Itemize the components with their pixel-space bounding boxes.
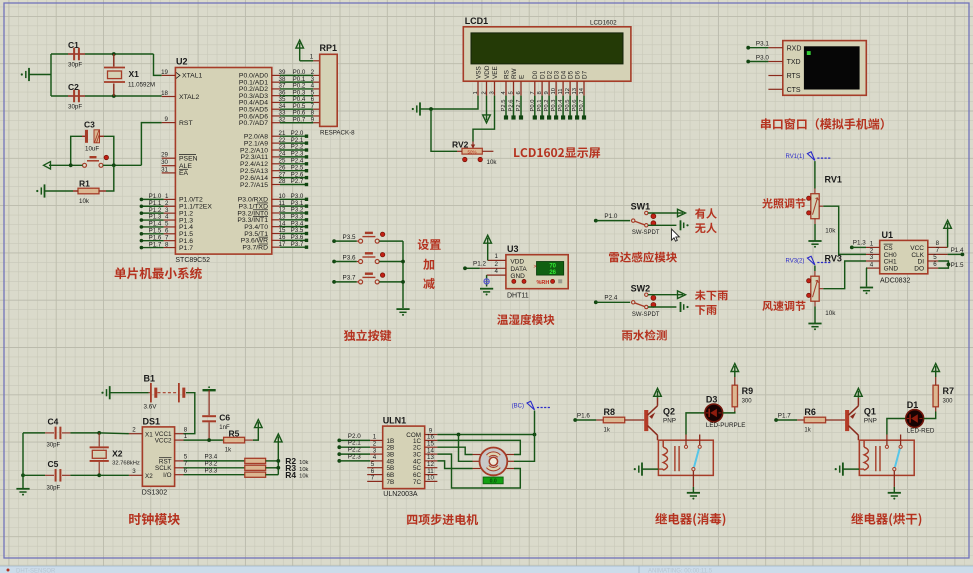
wire R1 to reset node xyxy=(99,190,106,192)
svg-text:P2.5: P2.5 xyxy=(501,100,507,112)
potentiometer RV3 10k xyxy=(811,276,819,301)
svg-text:1: 1 xyxy=(870,241,874,248)
pin RST xyxy=(162,122,176,124)
svg-text:P0.7: P0.7 xyxy=(293,116,306,123)
svg-text:%RH: %RH xyxy=(537,280,550,286)
wire throw2 / ground xyxy=(648,306,676,308)
svg-text:R7: R7 xyxy=(943,386,955,396)
power terminal (R5) xyxy=(255,420,263,428)
svg-text:E: E xyxy=(518,75,525,79)
pin P1.1 xyxy=(164,205,176,207)
svg-text:R6: R6 xyxy=(804,407,816,417)
pin P1.7 xyxy=(164,247,176,249)
svg-text:X2: X2 xyxy=(145,473,153,480)
ULN right pin 13 xyxy=(425,460,438,462)
ground (RV1) xyxy=(808,240,821,242)
svg-text:10uF: 10uF xyxy=(85,146,99,153)
LCD VSS to ground xyxy=(431,96,478,109)
svg-text:RV1(1): RV1(1) xyxy=(785,154,804,160)
mouse cursor xyxy=(672,229,680,241)
svg-text:1: 1 xyxy=(184,433,188,440)
svg-text:R9: R9 xyxy=(742,386,754,396)
RV1 wiper wire to CH0 xyxy=(819,205,823,207)
svg-text:DHT-SENSOR: DHT-SENSOR xyxy=(16,569,56,573)
svg-text:11: 11 xyxy=(558,88,564,94)
svg-text:D1: D1 xyxy=(907,400,919,410)
svg-text:VDD: VDD xyxy=(510,259,524,266)
svg-text:R1: R1 xyxy=(79,179,90,189)
label: 减 xyxy=(423,278,434,289)
svg-text:30pF: 30pF xyxy=(68,62,82,69)
ground (battery) xyxy=(109,386,111,399)
svg-text:RW: RW xyxy=(511,68,518,79)
svg-text:VDD: VDD xyxy=(484,65,491,79)
pin P1.3 xyxy=(164,219,176,221)
relay coil+contact xyxy=(658,440,713,475)
svg-text:VEE: VEE xyxy=(492,66,499,79)
svg-text:R4: R4 xyxy=(285,470,296,480)
svg-text:XTAL2: XTAL2 xyxy=(179,94,199,101)
svg-text:10k: 10k xyxy=(825,228,836,235)
push button P3.5 xyxy=(332,239,336,243)
svg-text:U1: U1 xyxy=(882,230,894,240)
svg-text:7C: 7C xyxy=(413,479,422,486)
svg-text:50%: 50% xyxy=(467,149,476,154)
svg-text:PNP: PNP xyxy=(864,418,877,425)
reset terminal arrow xyxy=(44,162,51,169)
svg-text:X1: X1 xyxy=(129,69,140,79)
svg-text:14: 14 xyxy=(579,87,585,94)
svg-text:LCD1: LCD1 xyxy=(465,16,489,26)
svg-text:8: 8 xyxy=(165,241,169,248)
ground (R1) xyxy=(44,184,46,197)
svg-text:30pF: 30pF xyxy=(47,485,61,491)
status bar xyxy=(0,566,973,573)
ULN pin 6 stub xyxy=(367,474,383,476)
wire COM to motor right xyxy=(514,435,535,462)
transistor Q2 PNP xyxy=(644,410,648,431)
svg-text:8: 8 xyxy=(936,240,940,247)
DHT11 GND pin xyxy=(487,274,506,276)
LCD D3 wire xyxy=(555,96,557,118)
resistor R8 1k xyxy=(596,419,603,421)
LED D1 LED-RED xyxy=(887,419,906,435)
svg-text:3: 3 xyxy=(132,468,136,475)
serial window (virtual terminal) xyxy=(783,41,867,96)
svg-text:P1.6: P1.6 xyxy=(577,413,590,420)
ADC DO pin 6 xyxy=(928,267,938,269)
label: 加 xyxy=(423,259,434,270)
emitter to power xyxy=(657,398,659,406)
svg-text:P1.7: P1.7 xyxy=(179,245,193,252)
LCD RS wire xyxy=(505,96,507,118)
capacitor C2 xyxy=(51,95,68,97)
ground (relay coil) xyxy=(842,463,844,476)
wire to XTAL1 xyxy=(154,54,162,75)
ADC pin 4 xyxy=(866,267,880,269)
svg-text:RV3: RV3 xyxy=(825,254,842,264)
wire C4-C5 left bus xyxy=(22,433,24,489)
node P1.3 xyxy=(850,246,854,250)
svg-text:C2: C2 xyxy=(68,82,79,92)
LCD E wire xyxy=(520,96,522,118)
svg-text:P3.1: P3.1 xyxy=(756,41,769,48)
resistor R9 300 xyxy=(723,412,735,413)
svg-text:3: 3 xyxy=(870,254,874,261)
DHT11 DATA pin / node P1.2 xyxy=(480,267,506,269)
wire 1C to motor xyxy=(437,440,520,454)
push button P3.6 xyxy=(332,260,336,264)
RV2 right stub xyxy=(482,150,493,152)
chip DS1 DS1302 xyxy=(142,427,174,486)
svg-text:C3: C3 xyxy=(84,120,95,130)
svg-text:LED-PURPLE: LED-PURPLE xyxy=(706,422,746,429)
DHT11 LCD panel xyxy=(537,262,564,276)
node P1.5 wire xyxy=(938,261,948,268)
svg-text:10k: 10k xyxy=(299,460,308,466)
svg-text:4: 4 xyxy=(494,268,498,275)
svg-text:RV2: RV2 xyxy=(452,140,469,150)
ADC pin 2 xyxy=(866,253,880,255)
wire probe to RV1 xyxy=(814,161,816,188)
svg-text:26: 26 xyxy=(549,270,556,276)
wire throw2 / ground xyxy=(648,224,676,226)
svg-text:C6: C6 xyxy=(219,413,230,423)
svg-text:D2: D2 xyxy=(546,70,553,79)
svg-text:5: 5 xyxy=(509,91,515,94)
label: DHT11 title xyxy=(497,314,508,325)
LCD RW wire xyxy=(513,96,515,118)
svg-text:D3: D3 xyxy=(706,395,718,405)
crystal X1 xyxy=(112,52,116,56)
svg-text:DI: DI xyxy=(918,258,925,265)
pin PSEN xyxy=(162,157,176,159)
ULN right pin 11 xyxy=(425,474,438,476)
svg-text:300: 300 xyxy=(943,399,954,405)
svg-text:P1.3: P1.3 xyxy=(853,240,866,247)
RV3 bottom to ground xyxy=(814,301,816,306)
LCD VEE to RV2 wiper xyxy=(473,96,495,142)
svg-text:R8: R8 xyxy=(604,407,616,417)
power terminal (ADC) xyxy=(944,220,952,228)
label: wind adjust xyxy=(762,301,773,311)
ground (crystal) xyxy=(28,68,30,81)
svg-text:4: 4 xyxy=(870,261,874,268)
LCD1 LCD1602 display xyxy=(463,27,631,81)
svg-text:DATA: DATA xyxy=(510,266,527,273)
svg-text:0.0: 0.0 xyxy=(490,479,497,485)
svg-text:10k: 10k xyxy=(299,467,308,473)
svg-text:1: 1 xyxy=(494,253,498,260)
svg-text:RP1: RP1 xyxy=(320,43,338,53)
svg-text:13: 13 xyxy=(572,88,578,94)
svg-text:GND: GND xyxy=(510,273,525,280)
svg-text:P0.3: P0.3 xyxy=(551,100,557,112)
svg-text:U2: U2 xyxy=(176,57,188,67)
pin XTAL2 xyxy=(162,96,176,98)
node P1.6 xyxy=(573,418,577,422)
power terminal (RP1) xyxy=(296,40,304,48)
svg-text:ULN1: ULN1 xyxy=(383,416,407,426)
svg-text:RV1: RV1 xyxy=(825,175,842,185)
wire 2C to motor xyxy=(437,447,472,454)
LCD D4 wire xyxy=(562,96,564,118)
LCD D5 wire xyxy=(569,96,571,118)
relay contacts xyxy=(685,435,687,446)
DS1302 VCC1 pin 8 xyxy=(175,433,184,435)
capacitor C6 1nF xyxy=(208,390,210,415)
svg-text:7: 7 xyxy=(371,475,375,482)
svg-text:P0.7/AD7: P0.7/AD7 xyxy=(239,120,268,127)
ULN right pin 10 xyxy=(425,480,438,482)
svg-text:30pF: 30pF xyxy=(47,443,61,449)
svg-text:X2: X2 xyxy=(112,449,123,459)
svg-text:PNP: PNP xyxy=(663,418,676,425)
wire probe to RV3 xyxy=(814,266,816,272)
RV1 bottom to ground xyxy=(814,219,816,224)
DS1302 RST pin 5 / resistor R2 10k xyxy=(175,460,184,462)
svg-text:D1: D1 xyxy=(539,70,546,79)
svg-text:70: 70 xyxy=(549,263,556,269)
ADC pin 3 xyxy=(866,260,880,262)
ADC CLK pin 7 / node P1.4 xyxy=(928,253,948,255)
ADC VCC pin 8 xyxy=(928,246,948,248)
svg-text:9: 9 xyxy=(311,116,315,123)
svg-text:(BC): (BC) xyxy=(512,403,524,409)
svg-text:P2.4: P2.4 xyxy=(604,295,617,302)
ULN right pin 12 xyxy=(425,467,438,469)
serial pin CTS xyxy=(768,88,782,90)
wire xyxy=(50,54,52,96)
LCD D7 wire xyxy=(583,96,585,118)
svg-text:P2.3: P2.3 xyxy=(348,453,361,460)
LCD VDD power (down arrow) xyxy=(486,96,488,116)
ADC U1 ADC0832 xyxy=(880,240,928,273)
label: stepper title xyxy=(407,515,417,525)
svg-text:RV3(2): RV3(2) xyxy=(785,258,804,264)
probe (BC) xyxy=(534,411,536,435)
svg-text:P3.0: P3.0 xyxy=(756,54,769,61)
LCD D6 wire xyxy=(576,96,578,118)
svg-text:1k: 1k xyxy=(604,428,611,434)
DS1302 X2 pin 3 xyxy=(129,474,143,476)
contact to ground xyxy=(893,471,895,487)
power terminal (DHT11) xyxy=(484,235,492,243)
svg-text:30: 30 xyxy=(161,159,168,166)
svg-text:CH1: CH1 xyxy=(884,258,897,265)
labels xyxy=(695,208,705,219)
svg-text:31: 31 xyxy=(161,166,168,173)
svg-text:RST: RST xyxy=(179,120,193,127)
svg-text:D7: D7 xyxy=(581,70,588,79)
ULN right pin 14 xyxy=(425,453,438,455)
label: radar title xyxy=(609,252,619,262)
serial pin RXD xyxy=(768,47,782,49)
svg-text:PSEN: PSEN xyxy=(179,156,198,163)
svg-text:1: 1 xyxy=(473,91,479,94)
motor speed display xyxy=(483,477,503,484)
svg-text:3: 3 xyxy=(490,91,496,94)
wire 3C to motor xyxy=(437,454,520,488)
svg-text:10k: 10k xyxy=(487,159,498,166)
svg-text:9: 9 xyxy=(165,116,169,123)
svg-text:C5: C5 xyxy=(48,459,59,469)
svg-text:10k: 10k xyxy=(299,474,308,480)
label: clock title xyxy=(129,513,141,525)
svg-text:6: 6 xyxy=(933,261,937,268)
label: rain title xyxy=(622,330,632,340)
svg-text:U3: U3 xyxy=(507,244,519,254)
LED D3 LED-PURPLE xyxy=(686,413,705,435)
svg-text:19: 19 xyxy=(161,69,168,76)
power terminal (LED resistor) xyxy=(932,364,940,372)
potentiometer RV1 10k xyxy=(811,194,819,219)
ground (ADC) xyxy=(860,287,873,289)
pin P1.4 xyxy=(164,226,176,228)
svg-text:LCD1602: LCD1602 xyxy=(590,20,617,27)
svg-text:6: 6 xyxy=(184,468,188,475)
svg-text:D3: D3 xyxy=(553,70,560,79)
node P2.0 to ULN xyxy=(337,439,341,443)
wire reset node xyxy=(103,164,141,166)
svg-text:EA: EA xyxy=(179,170,189,177)
svg-text:2: 2 xyxy=(482,91,488,94)
ULN pin 7 stub xyxy=(367,480,383,482)
svg-text:P0.5: P0.5 xyxy=(565,100,571,112)
LCD screen xyxy=(471,33,623,64)
svg-text:5: 5 xyxy=(933,254,937,261)
svg-text:D4: D4 xyxy=(560,70,567,79)
svg-text:P0.1: P0.1 xyxy=(537,100,543,112)
crystal X2 32.768kHz xyxy=(98,433,100,447)
potentiometer RV2 10k xyxy=(462,148,482,154)
svg-text:7: 7 xyxy=(530,91,536,94)
svg-text:29: 29 xyxy=(161,152,168,159)
svg-text:C4: C4 xyxy=(48,417,59,427)
label: 设置 xyxy=(418,239,429,250)
svg-text:18: 18 xyxy=(161,90,168,97)
wire X1 net xyxy=(97,431,101,435)
collector to relay xyxy=(857,435,859,440)
capacitor C5 30pF xyxy=(21,473,25,477)
svg-text:P3.7: P3.7 xyxy=(343,275,356,282)
resistor R7 300 xyxy=(924,412,936,419)
contact to ground xyxy=(692,471,694,487)
ULN right pin 15 xyxy=(425,446,438,448)
capacitor C4 30pF xyxy=(23,432,45,434)
svg-text:DS1302: DS1302 xyxy=(142,490,167,497)
emitter to power xyxy=(857,398,859,406)
svg-text:P2.7/A15: P2.7/A15 xyxy=(240,182,268,189)
svg-text:10k: 10k xyxy=(825,310,836,317)
ULN right pin 9 xyxy=(425,434,438,436)
svg-text:P3.7/RD: P3.7/RD xyxy=(242,244,268,251)
ADC pin 1 xyxy=(866,246,880,248)
ground (C6 top) xyxy=(203,389,216,391)
svg-text:Q1: Q1 xyxy=(864,407,876,417)
ground (relay coil) xyxy=(641,463,643,476)
node P3.0 xyxy=(748,61,768,63)
svg-text:SW2: SW2 xyxy=(631,283,651,293)
svg-text:32.768kHz: 32.768kHz xyxy=(112,461,140,467)
pin P1.0 xyxy=(164,198,176,200)
svg-text:P3.6: P3.6 xyxy=(343,254,356,261)
svg-text:P0.0: P0.0 xyxy=(530,100,536,112)
svg-text:P2.6: P2.6 xyxy=(509,100,515,112)
svg-text:P3.7: P3.7 xyxy=(291,241,304,248)
svg-text:P3.5: P3.5 xyxy=(343,234,356,241)
svg-text:Q2: Q2 xyxy=(663,407,675,417)
svg-text:P1.2: P1.2 xyxy=(473,261,486,268)
svg-text:>: > xyxy=(534,264,537,270)
pin EA xyxy=(162,172,176,174)
svg-text:P0.7: P0.7 xyxy=(579,100,585,112)
svg-text:6: 6 xyxy=(516,91,522,94)
LCD D0 wire xyxy=(534,96,536,118)
svg-text:CS: CS xyxy=(884,245,894,252)
wire throw1 / power arrow xyxy=(648,294,676,296)
svg-text:1k: 1k xyxy=(225,448,232,454)
svg-text:RTS: RTS xyxy=(787,73,801,80)
relay contacts xyxy=(886,435,888,446)
DHT11 VDD pin xyxy=(488,259,506,261)
svg-text:10: 10 xyxy=(551,88,557,94)
ADC DI pin 5 xyxy=(928,260,938,262)
svg-text:B1: B1 xyxy=(144,374,156,384)
svg-text:R5: R5 xyxy=(229,428,240,438)
svg-text:SW-SPDT: SW-SPDT xyxy=(632,312,660,318)
svg-text:3.6V: 3.6V xyxy=(144,404,158,411)
svg-text:XTAL1: XTAL1 xyxy=(182,73,202,80)
label: LCD title xyxy=(514,148,519,157)
svg-text:RS: RS xyxy=(503,70,510,79)
pin XTAL1 xyxy=(162,74,176,76)
push button P3.7 xyxy=(332,280,336,284)
svg-text:30pF: 30pF xyxy=(68,104,82,111)
wire RP1 pin1 xyxy=(300,60,314,62)
svg-text:300: 300 xyxy=(742,399,753,405)
pullup bus / power xyxy=(277,442,279,475)
ground (buttons) xyxy=(396,308,409,310)
serial pin RTS xyxy=(768,75,782,77)
svg-text:1: 1 xyxy=(310,53,314,60)
ground (DHT11) xyxy=(480,288,493,290)
label: relay title xyxy=(655,513,667,524)
transistor Q1 PNP xyxy=(845,410,849,431)
DHT11 U3 xyxy=(506,255,568,289)
svg-text:VCC2: VCC2 xyxy=(155,438,172,445)
label: buttons title xyxy=(344,330,355,341)
RV2 left wire xyxy=(457,150,462,152)
relay coil+contact xyxy=(859,440,914,475)
resistor R6 1k xyxy=(797,419,804,421)
svg-text:VCC: VCC xyxy=(910,245,924,252)
ULN right pin 16 xyxy=(425,439,438,441)
wire throw1 / power arrow xyxy=(648,212,676,214)
node P2.3 to ULN xyxy=(337,459,341,463)
svg-text:10k: 10k xyxy=(79,198,90,205)
svg-text:P1.7: P1.7 xyxy=(778,413,791,420)
svg-text:P1.0: P1.0 xyxy=(604,213,617,220)
svg-text:RXD: RXD xyxy=(787,45,802,52)
svg-text:ADC0832: ADC0832 xyxy=(880,278,910,285)
label: light adjust xyxy=(762,198,772,208)
svg-text:9: 9 xyxy=(544,91,550,94)
svg-text:10: 10 xyxy=(427,475,434,482)
svg-text:P0.6: P0.6 xyxy=(572,100,578,112)
pin P1.5 xyxy=(164,233,176,235)
svg-text:CTS: CTS xyxy=(787,87,801,94)
